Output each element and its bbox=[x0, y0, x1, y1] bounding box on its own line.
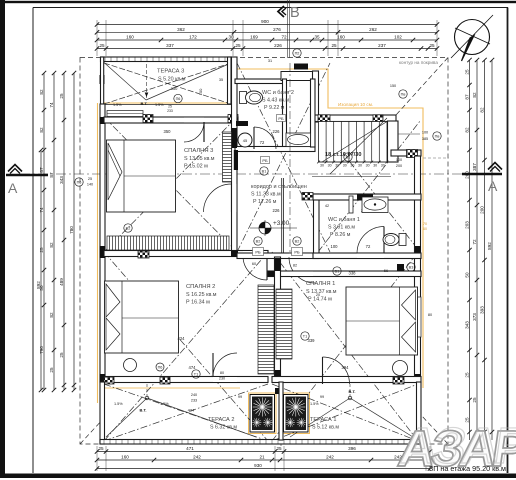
svg-text:72: 72 bbox=[281, 35, 287, 40]
svg-text:100: 100 bbox=[198, 88, 203, 95]
svg-text:25: 25 bbox=[472, 397, 477, 403]
axis A-A dash-dot bbox=[20, 173, 500, 175]
svg-text:230: 230 bbox=[219, 377, 225, 381]
B axis inside building dashed bbox=[289, 63, 291, 253]
wall WC2/stairs west bbox=[313, 71, 319, 122]
node circles bbox=[174, 94, 182, 102]
closet bedroom3 south (clothes rail) bbox=[107, 236, 229, 250]
room diagonal cross terrace2 bbox=[104, 384, 268, 441]
planter plants bbox=[262, 406, 272, 408]
svg-text:233: 233 bbox=[167, 109, 173, 113]
svg-text:394: 394 bbox=[342, 365, 350, 370]
svg-text:СПАЛНЯ 2: СПАЛНЯ 2 bbox=[186, 284, 215, 290]
terrace2 slope lines bbox=[106, 398, 147, 437]
terrace3 railing top bbox=[101, 57, 232, 62]
svg-text:коридор и стълбищен: коридор и стълбищен bbox=[251, 184, 307, 190]
svg-text:ТЕРАСА 2: ТЕРАСА 2 bbox=[208, 417, 234, 423]
svg-text:S 4.43 кв.м: S 4.43 кв.м bbox=[262, 98, 289, 104]
svg-text:ЗП на етажа 95.20 кв.м: ЗП на етажа 95.20 кв.м bbox=[429, 464, 506, 473]
svg-text:20: 20 bbox=[316, 293, 320, 297]
svg-text:82: 82 bbox=[464, 127, 469, 133]
svg-text:В: В bbox=[290, 5, 300, 21]
svg-text:1.5%: 1.5% bbox=[113, 103, 122, 107]
bedroom2 terrace door bbox=[213, 377, 237, 382]
svg-text:60: 60 bbox=[423, 227, 427, 231]
stairs hall north wall bbox=[312, 115, 396, 122]
svg-text:S 13.05 кв.м: S 13.05 кв.м bbox=[184, 156, 215, 162]
svg-text:780: 780 bbox=[69, 226, 74, 234]
svg-text:474: 474 bbox=[189, 365, 197, 370]
svg-text:87: 87 bbox=[464, 94, 469, 100]
terrace2 left wall bbox=[100, 382, 105, 444]
svg-text:337: 337 bbox=[166, 43, 174, 48]
svg-text:В2: В2 bbox=[295, 240, 300, 244]
svg-text:226: 226 bbox=[273, 208, 281, 213]
svg-text:СПАЛНЯ 1: СПАЛНЯ 1 bbox=[306, 281, 335, 287]
bedroom3 north window bbox=[107, 111, 143, 117]
svg-text:900: 900 bbox=[261, 19, 269, 24]
svg-text:240: 240 bbox=[191, 393, 197, 397]
stairs landing bottom line bbox=[312, 176, 391, 178]
svg-text:25: 25 bbox=[49, 367, 54, 373]
svg-text:72: 72 bbox=[366, 244, 371, 249]
svg-text:В3: В3 bbox=[409, 266, 414, 270]
door opening bedroom3 north bbox=[184, 118, 204, 123]
svg-text:350: 350 bbox=[171, 86, 178, 91]
svg-text:338: 338 bbox=[349, 271, 357, 276]
inner frame lines bbox=[33, 7, 508, 9]
svg-text:S 3.91 кв.м: S 3.91 кв.м bbox=[328, 225, 355, 231]
WC2 toilet bbox=[240, 92, 247, 104]
WC1 toilet bbox=[399, 234, 406, 246]
svg-text:СПАЛНЯ 3: СПАЛНЯ 3 bbox=[184, 148, 213, 154]
svg-text:30: 30 bbox=[350, 164, 354, 168]
svg-text:424: 424 bbox=[188, 408, 195, 413]
svg-text:160: 160 bbox=[337, 35, 345, 40]
svg-text:385: 385 bbox=[422, 137, 428, 141]
top dimension rows bbox=[97, 24, 437, 26]
svg-text:25: 25 bbox=[88, 177, 92, 181]
svg-text:Р 9.22 м: Р 9.22 м bbox=[264, 105, 285, 111]
svg-text:В.Т.: В.Т. bbox=[348, 389, 355, 394]
node P6 left bbox=[75, 178, 83, 186]
svg-text:892: 892 bbox=[487, 242, 492, 250]
section marker A left bbox=[8, 165, 22, 172]
bedroom1 north wall bbox=[268, 271, 421, 277]
WC2 north wall bbox=[235, 79, 286, 84]
svg-text:203: 203 bbox=[464, 221, 469, 229]
svg-text:892: 892 bbox=[36, 281, 41, 289]
left exterior wall bbox=[100, 104, 105, 382]
svg-text:Изолация 10 см.: Изолация 10 см. bbox=[338, 102, 373, 107]
svg-text:30: 30 bbox=[373, 164, 377, 168]
svg-text:160: 160 bbox=[126, 35, 134, 40]
room diagonal cross stairs block bbox=[318, 121, 420, 252]
bed1 bbox=[346, 287, 418, 355]
svg-text:25: 25 bbox=[99, 43, 105, 48]
svg-text:387: 387 bbox=[472, 163, 477, 171]
RB label boxes bbox=[277, 115, 286, 122]
svg-text:25: 25 bbox=[331, 43, 337, 48]
svg-text:30: 30 bbox=[328, 164, 332, 168]
svg-text:242: 242 bbox=[326, 455, 334, 460]
svg-text:226: 226 bbox=[274, 43, 282, 48]
WC1 bath bbox=[362, 197, 388, 213]
svg-text:169: 169 bbox=[250, 35, 258, 40]
svg-text:82: 82 bbox=[39, 89, 44, 95]
section marker B top bbox=[278, 6, 284, 17]
WC1 south wall bbox=[313, 253, 421, 259]
svg-text:Т1: Т1 bbox=[194, 373, 198, 377]
WC1 door bbox=[357, 254, 384, 259]
WC1 north wall bbox=[313, 194, 421, 200]
door corridor to bedroom2 bbox=[243, 251, 267, 257]
svg-text:S 13.37 кв.м: S 13.37 кв.м bbox=[306, 289, 337, 295]
svg-text:100: 100 bbox=[396, 158, 402, 162]
page frame top black line bbox=[0, 1, 516, 3]
svg-text:П6: П6 bbox=[158, 366, 163, 370]
svg-text:25: 25 bbox=[276, 446, 282, 451]
svg-text:В1: В1 bbox=[346, 156, 351, 160]
stairs treads bbox=[319, 122, 388, 163]
svg-text:262: 262 bbox=[369, 27, 377, 32]
svg-text:100: 100 bbox=[422, 131, 428, 135]
svg-text:74: 74 bbox=[49, 102, 54, 108]
terrace3 left rail bbox=[101, 57, 104, 104]
svg-text:S 11.33 кв.м: S 11.33 кв.м bbox=[251, 192, 281, 198]
WC2 sink bbox=[238, 133, 252, 147]
terrace bottom rail bbox=[100, 440, 421, 445]
bedroom3 door east bbox=[232, 184, 237, 212]
svg-text:П2: П2 bbox=[295, 52, 300, 56]
svg-text:S 5.12 кв.м: S 5.12 кв.м bbox=[312, 425, 339, 431]
svg-text:242: 242 bbox=[193, 455, 201, 460]
svg-text:WC и баня 2: WC и баня 2 bbox=[262, 90, 294, 96]
svg-text:343: 343 bbox=[464, 321, 469, 329]
svg-text:45: 45 bbox=[243, 138, 248, 143]
bedside table bedroom2 bbox=[124, 359, 137, 372]
terrace divider wall bbox=[275, 388, 283, 394]
svg-text:82: 82 bbox=[293, 264, 297, 268]
closet bedroom3 east bbox=[223, 132, 232, 182]
WC1 west wall bbox=[314, 194, 320, 258]
extension lines bottom bbox=[96, 446, 98, 471]
svg-text:373: 373 bbox=[472, 313, 477, 321]
WC2 west sink wall / corridor fixtures bbox=[283, 79, 287, 150]
svg-text:Пв: Пв bbox=[401, 93, 406, 97]
svg-text:1.5%: 1.5% bbox=[310, 402, 319, 406]
bottom dimension rows bbox=[97, 451, 430, 453]
svg-text:В2: В2 bbox=[126, 227, 131, 231]
center spine wall between bedrooms bbox=[275, 257, 281, 382]
bed2 bbox=[105, 281, 179, 353]
roof contour dashed bbox=[80, 58, 448, 445]
room diagonal cross terrace1 bbox=[272, 384, 418, 441]
corridor rail wall bbox=[281, 178, 283, 253]
terrace3 floor edge bbox=[100, 104, 235, 106]
svg-text:П6: П6 bbox=[77, 181, 82, 185]
north arrow bbox=[455, 20, 490, 55]
bedside table bedroom1 bbox=[393, 361, 408, 376]
svg-text:Р 14.74 м: Р 14.74 м bbox=[308, 296, 332, 302]
middle wall left part bbox=[104, 251, 268, 257]
stairs hall east wall bbox=[388, 121, 399, 162]
svg-text:42: 42 bbox=[325, 204, 329, 208]
bedroom1 north wall door gap bbox=[290, 272, 313, 277]
room diagonal cross corridor block bbox=[237, 63, 330, 252]
extension lines top bbox=[96, 20, 98, 56]
svg-text:Р 17.26 м: Р 17.26 м bbox=[253, 199, 277, 205]
svg-text:Пв: Пв bbox=[435, 135, 440, 139]
svg-text:В1: В1 bbox=[335, 270, 340, 274]
bedroom1 east window bbox=[414, 297, 421, 337]
bedroom3 north wall bbox=[104, 117, 238, 123]
insulation contour (orange) bbox=[100, 102, 231, 104]
svg-text:25: 25 bbox=[464, 69, 469, 75]
svg-text:30: 30 bbox=[366, 164, 370, 168]
svg-text:25: 25 bbox=[235, 43, 241, 48]
svg-text:82: 82 bbox=[39, 127, 44, 133]
svg-text:172: 172 bbox=[189, 35, 197, 40]
storage east wall bbox=[311, 79, 316, 147]
svg-text:102: 102 bbox=[394, 35, 402, 40]
svg-text:31: 31 bbox=[268, 59, 272, 63]
svg-text:80: 80 bbox=[428, 313, 432, 317]
closet bedroom1 bbox=[276, 289, 292, 359]
svg-text:РБ: РБ bbox=[255, 250, 261, 255]
svg-text:72: 72 bbox=[260, 140, 265, 145]
watermark bazar bbox=[395, 420, 516, 477]
svg-text:Р 15.02 м: Р 15.02 м bbox=[184, 163, 208, 169]
page frame bottom black bar bbox=[0, 474, 516, 479]
svg-text:99: 99 bbox=[320, 395, 324, 399]
svg-text:А: А bbox=[488, 178, 498, 194]
svg-text:30: 30 bbox=[343, 164, 347, 168]
svg-text:30: 30 bbox=[320, 164, 324, 168]
svg-text:150: 150 bbox=[390, 84, 396, 88]
svg-text:233: 233 bbox=[191, 399, 197, 403]
terrace3 right rail bbox=[228, 57, 232, 104]
svg-text:82: 82 bbox=[472, 92, 477, 98]
svg-text:WC и баня 1: WC и баня 1 bbox=[328, 217, 360, 223]
svg-text:РБ: РБ bbox=[294, 250, 300, 255]
svg-text:80: 80 bbox=[220, 371, 224, 375]
svg-text:25: 25 bbox=[59, 352, 64, 358]
svg-text:100: 100 bbox=[331, 244, 339, 249]
room diagonal cross bedroom2 bbox=[104, 252, 268, 441]
WC2 wall block bbox=[236, 121, 248, 126]
door corridor to bedroom1 passage bbox=[289, 254, 313, 259]
svg-text:276: 276 bbox=[273, 27, 281, 32]
svg-text:РБ: РБ bbox=[278, 116, 284, 121]
svg-text:489: 489 bbox=[59, 278, 64, 286]
svg-text:В1: В1 bbox=[262, 170, 267, 174]
section marker A right bbox=[488, 163, 502, 170]
axis B vertical bbox=[287, 0, 289, 58]
svg-text:25: 25 bbox=[464, 372, 469, 378]
svg-text:35: 35 bbox=[314, 35, 320, 40]
svg-text:В.Т.: В.Т. bbox=[139, 408, 146, 413]
svg-text:82: 82 bbox=[49, 242, 54, 248]
svg-text:ТЕРАСА 1: ТЕРАСА 1 bbox=[310, 417, 336, 423]
roof hip diagonals bbox=[396, 58, 448, 116]
svg-text:72: 72 bbox=[472, 239, 477, 245]
WC2 door bbox=[254, 147, 276, 151]
svg-text:350: 350 bbox=[164, 129, 172, 134]
svg-text:140: 140 bbox=[87, 183, 93, 187]
svg-text:1.5%: 1.5% bbox=[160, 402, 169, 406]
svg-text:РБ: РБ bbox=[262, 158, 268, 163]
svg-text:25: 25 bbox=[59, 93, 64, 99]
svg-text:393: 393 bbox=[479, 306, 484, 314]
svg-text:1.5%: 1.5% bbox=[155, 103, 164, 107]
svg-text:21: 21 bbox=[259, 455, 265, 460]
planter left bbox=[250, 395, 275, 433]
svg-text:237: 237 bbox=[378, 43, 386, 48]
svg-text:471: 471 bbox=[186, 446, 194, 451]
svg-text:35: 35 bbox=[219, 78, 223, 82]
svg-text:82: 82 bbox=[479, 107, 484, 113]
room diagonal cross bedroom1 bbox=[272, 252, 418, 441]
svg-text:1.5%: 1.5% bbox=[114, 402, 123, 406]
svg-text:контур на покрива: контур на покрива bbox=[399, 60, 438, 65]
right dimension columns bbox=[469, 60, 471, 440]
step wall to main east wall bbox=[391, 150, 421, 156]
svg-text:70: 70 bbox=[423, 222, 427, 226]
terrace1 right wall bbox=[417, 382, 422, 444]
corridor south wall bbox=[237, 253, 319, 259]
svg-text:Р 8.26 м: Р 8.26 м bbox=[330, 232, 351, 238]
svg-text:30: 30 bbox=[358, 164, 362, 168]
elevation marker +3.00 bbox=[259, 222, 271, 234]
room diagonal cross bedroom3 block bbox=[104, 117, 237, 252]
svg-text:362: 362 bbox=[177, 27, 185, 32]
svg-text:930: 930 bbox=[254, 463, 262, 468]
svg-text:226: 226 bbox=[273, 129, 281, 134]
svg-text:В.Т.: В.Т. bbox=[140, 101, 147, 106]
svg-text:99: 99 bbox=[238, 395, 242, 399]
svg-text:396: 396 bbox=[348, 446, 356, 451]
wall bedroom3 east / corridor west bbox=[232, 57, 238, 253]
svg-text:82: 82 bbox=[49, 312, 54, 318]
svg-text:339: 339 bbox=[308, 338, 316, 343]
svg-text:Р 16.34 м: Р 16.34 м bbox=[186, 299, 210, 305]
svg-text:343: 343 bbox=[59, 176, 64, 184]
svg-text:25: 25 bbox=[168, 105, 172, 109]
svg-text:56: 56 bbox=[384, 269, 388, 273]
svg-text:200: 200 bbox=[396, 164, 402, 168]
svg-text:25: 25 bbox=[98, 446, 104, 451]
corridor B2 nodes bbox=[254, 237, 262, 245]
page frame left black bar bbox=[0, 0, 5, 478]
left dimension columns bbox=[43, 73, 45, 390]
svg-text:424: 424 bbox=[178, 336, 186, 341]
bedroom1 south wall bbox=[272, 377, 421, 383]
left wall column blocks bbox=[100, 117, 106, 124]
svg-text:S 16.25 кв.м: S 16.25 кв.м bbox=[186, 292, 217, 298]
terrace1 slope lines bbox=[290, 398, 350, 437]
WC2 south wall bbox=[235, 147, 315, 152]
shaft niche above WC2 bbox=[281, 72, 313, 81]
svg-text:В2: В2 bbox=[256, 240, 261, 244]
bed3 bbox=[107, 140, 176, 212]
planter right bbox=[284, 395, 309, 433]
svg-text:18 ст.16.07/30: 18 ст.16.07/30 bbox=[325, 152, 361, 158]
svg-text:25: 25 bbox=[429, 43, 435, 48]
svg-text:ТЕРАСА 3: ТЕРАСА 3 bbox=[157, 69, 184, 75]
east exterior wall bbox=[415, 156, 421, 382]
svg-text:S 5.20 кв.м: S 5.20 кв.м bbox=[158, 76, 186, 82]
svg-text:30: 30 bbox=[381, 164, 385, 168]
bedroom1 terrace door bbox=[322, 377, 349, 382]
bedroom2 south wall bbox=[104, 377, 268, 383]
svg-text:87: 87 bbox=[49, 172, 54, 178]
closet bedroom2 bbox=[258, 285, 274, 374]
svg-text:30: 30 bbox=[335, 164, 339, 168]
svg-text:50: 50 bbox=[464, 272, 469, 278]
svg-text:160: 160 bbox=[121, 455, 129, 460]
svg-text:А: А bbox=[8, 180, 18, 196]
svg-text:60: 60 bbox=[252, 262, 256, 266]
svg-text:200: 200 bbox=[479, 206, 484, 214]
svg-text:П6: П6 bbox=[176, 97, 181, 101]
svg-text:S 6.32 кв.м: S 6.32 кв.м bbox=[210, 425, 237, 431]
WC2 bath bbox=[286, 133, 311, 147]
WC1 partition stub bbox=[349, 196, 353, 213]
terrace3 slope lines bbox=[104, 63, 146, 101]
